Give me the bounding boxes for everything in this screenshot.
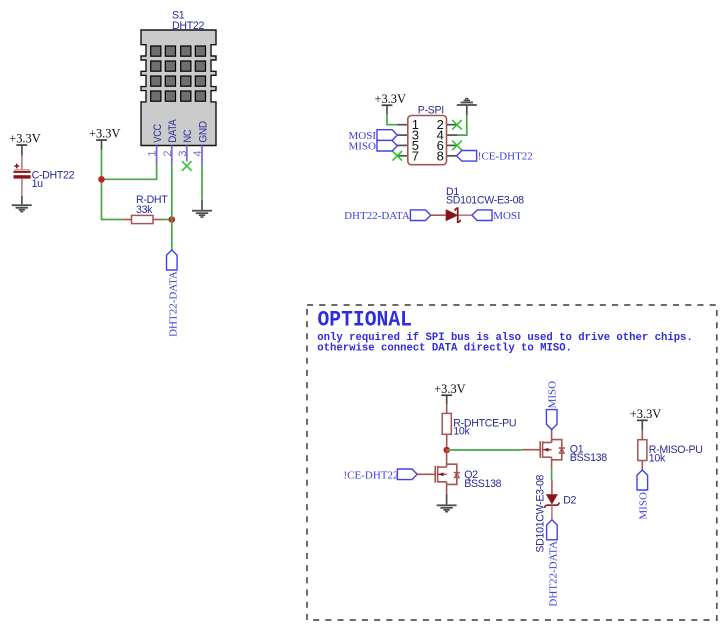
svg-text:DHT22-DATA: DHT22-DATA bbox=[168, 271, 180, 337]
svg-text:33k: 33k bbox=[136, 204, 153, 216]
svg-text:otherwise connect DATA directl: otherwise connect DATA directly to MISO. bbox=[317, 342, 572, 354]
svg-text:SD101CW-E3-08: SD101CW-E3-08 bbox=[535, 474, 547, 552]
svg-text:DHT22: DHT22 bbox=[172, 20, 204, 32]
svg-text:OPTIONAL: OPTIONAL bbox=[318, 306, 413, 332]
svg-text:10k: 10k bbox=[649, 453, 666, 465]
svg-text:DHT22-DATA: DHT22-DATA bbox=[344, 210, 410, 222]
svg-text:MISO: MISO bbox=[348, 140, 376, 152]
svg-text:D2: D2 bbox=[563, 494, 576, 506]
svg-text:MISO: MISO bbox=[638, 492, 650, 520]
svg-text:MISO: MISO bbox=[547, 381, 559, 409]
svg-text:2: 2 bbox=[162, 150, 174, 156]
svg-text:!CE-DHT22: !CE-DHT22 bbox=[478, 150, 533, 162]
svg-text:P-SPI: P-SPI bbox=[418, 104, 444, 116]
svg-text:1u: 1u bbox=[32, 178, 44, 190]
svg-text:!CE-DHT22: !CE-DHT22 bbox=[344, 470, 399, 482]
svg-text:3: 3 bbox=[177, 150, 189, 156]
svg-text:1: 1 bbox=[147, 150, 159, 156]
svg-text:8: 8 bbox=[437, 149, 444, 164]
svg-text:SD101CW-E3-08: SD101CW-E3-08 bbox=[446, 194, 524, 206]
svg-text:7: 7 bbox=[412, 149, 419, 164]
svg-text:GND: GND bbox=[197, 120, 209, 142]
svg-text:DATA: DATA bbox=[167, 118, 179, 142]
svg-text:VCC: VCC bbox=[152, 124, 164, 143]
svg-text:NC: NC bbox=[182, 129, 194, 143]
svg-text:4: 4 bbox=[192, 150, 204, 156]
svg-text:BSS138: BSS138 bbox=[570, 452, 607, 464]
svg-text:10k: 10k bbox=[453, 426, 470, 438]
svg-text:DHT22-DATA: DHT22-DATA bbox=[547, 541, 559, 607]
svg-text:BSS138: BSS138 bbox=[464, 478, 501, 490]
svg-text:MOSI: MOSI bbox=[493, 210, 521, 222]
